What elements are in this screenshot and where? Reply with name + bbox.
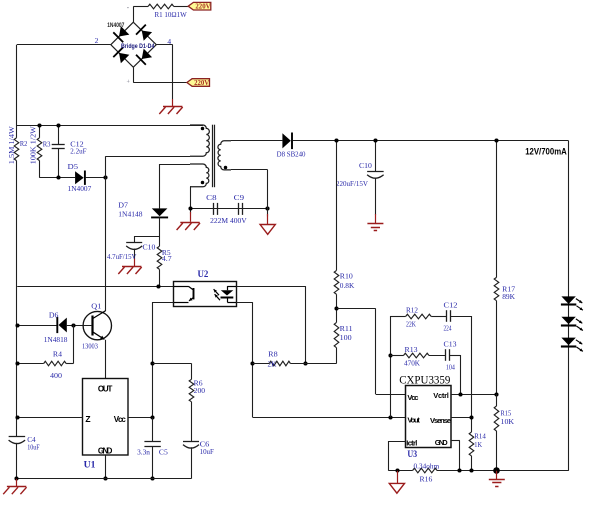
svg-text:Vcc: Vcc	[407, 393, 418, 402]
svg-text:GND: GND	[98, 447, 113, 456]
svg-text:D5: D5	[68, 162, 79, 171]
svg-text:Z: Z	[85, 414, 90, 424]
svg-text:0.34ohm: 0.34ohm	[414, 461, 440, 470]
svg-text:C9: C9	[234, 193, 245, 202]
svg-text:Vcc: Vcc	[114, 415, 127, 424]
svg-text:10K: 10K	[501, 417, 515, 426]
svg-text:OUT: OUT	[98, 384, 113, 393]
svg-text:220V: 220V	[195, 4, 210, 11]
svg-text:R3: R3	[43, 139, 51, 148]
svg-text:0.8K: 0.8K	[340, 281, 355, 290]
svg-text:C13: C13	[444, 339, 457, 348]
svg-text:Vctrl: Vctrl	[433, 391, 449, 400]
svg-text:GND: GND	[435, 438, 449, 447]
svg-text:Bridge D1-D4: Bridge D1-D4	[121, 43, 155, 50]
svg-text:224: 224	[444, 323, 452, 332]
svg-text:1N4148: 1N4148	[118, 209, 142, 218]
svg-text:R8: R8	[268, 350, 278, 359]
svg-text:13003: 13003	[82, 341, 98, 350]
svg-text:Vout: Vout	[407, 416, 420, 425]
svg-text:R2: R2	[20, 139, 28, 148]
svg-text:10uF: 10uF	[200, 447, 214, 456]
svg-text:D8 SB240: D8 SB240	[277, 150, 306, 159]
svg-text:C8: C8	[206, 193, 217, 202]
svg-text:1.5M 1/4W: 1.5M 1/4W	[7, 125, 16, 164]
svg-text:222M 400V: 222M 400V	[210, 216, 247, 225]
svg-text:Vsense: Vsense	[430, 416, 451, 425]
svg-text:R13: R13	[405, 345, 418, 354]
svg-text:2K: 2K	[268, 360, 278, 369]
svg-text:R12: R12	[406, 306, 418, 315]
svg-text:4.7uF/15V: 4.7uF/15V	[107, 252, 137, 261]
svg-text:1K: 1K	[474, 440, 482, 449]
svg-text:1N4007: 1N4007	[107, 22, 125, 29]
svg-text:100K 1/2W: 100K 1/2W	[29, 125, 38, 164]
svg-text:89K: 89K	[502, 292, 515, 301]
svg-text:U3: U3	[407, 450, 417, 460]
svg-text:R11: R11	[340, 324, 353, 333]
svg-text:12V/700mA: 12V/700mA	[525, 146, 567, 156]
svg-text:10uF: 10uF	[27, 443, 40, 452]
svg-text:Q1: Q1	[91, 302, 101, 311]
svg-text:1N4818: 1N4818	[44, 335, 68, 344]
svg-text:Ictrl: Ictrl	[406, 439, 417, 448]
svg-text:104: 104	[446, 363, 455, 372]
svg-text:220uF/15V: 220uF/15V	[336, 179, 369, 188]
svg-text:D7: D7	[118, 201, 128, 210]
svg-text:470K: 470K	[404, 359, 421, 368]
svg-text:CXPU3359: CXPU3359	[399, 375, 450, 387]
svg-text:2.2uF: 2.2uF	[70, 146, 86, 155]
svg-text:R16: R16	[420, 474, 433, 483]
svg-text:U2: U2	[198, 270, 209, 280]
svg-text:200: 200	[194, 386, 206, 395]
svg-text:2: 2	[95, 36, 99, 45]
svg-text:4: 4	[167, 37, 171, 46]
svg-text:100: 100	[340, 333, 352, 342]
svg-text:D6: D6	[49, 311, 59, 320]
svg-text:C5: C5	[159, 448, 168, 457]
svg-text:1N4007: 1N4007	[68, 184, 92, 193]
svg-text:3.3n: 3.3n	[137, 448, 150, 457]
svg-text:C12: C12	[444, 300, 458, 309]
svg-text:C10: C10	[143, 242, 156, 251]
svg-text:C10: C10	[359, 161, 372, 170]
svg-text:R10: R10	[340, 272, 353, 281]
svg-text:R1 10Ω1W: R1 10Ω1W	[155, 10, 188, 19]
svg-text:4.7: 4.7	[162, 254, 172, 263]
svg-text:220V: 220V	[194, 80, 209, 87]
svg-text:U1: U1	[84, 461, 96, 471]
svg-text:400: 400	[50, 371, 62, 380]
svg-text:R4: R4	[53, 349, 62, 358]
svg-text:22K: 22K	[406, 319, 416, 328]
